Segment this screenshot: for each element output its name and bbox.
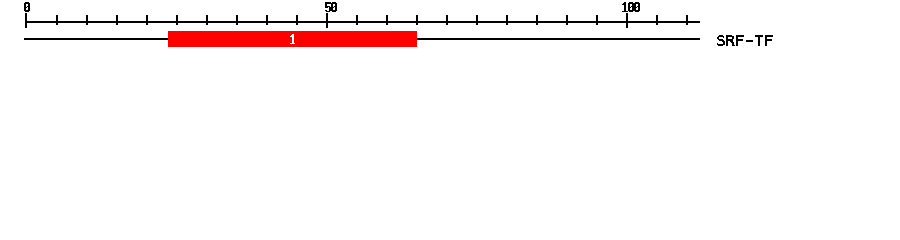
domain box (red, SRF-TF match): [168, 31, 417, 47]
ruler major tick 0: [25, 13, 27, 28]
ruler label 100: [622, 2, 640, 12]
ruler label 0: [24, 2, 30, 12]
ruler scale line: [25, 21, 700, 23]
ruler label 50: [325, 2, 337, 12]
domain number 1: [290, 34, 295, 44]
ruler minor ticks (every 5 residues): [56, 15, 688, 25]
background: [0, 0, 900, 58]
sequence line: [24, 38, 700, 40]
ruler major tick 50: [326, 13, 328, 28]
label SRF-TF: [717, 35, 773, 46]
ruler major tick 100: [626, 13, 628, 28]
